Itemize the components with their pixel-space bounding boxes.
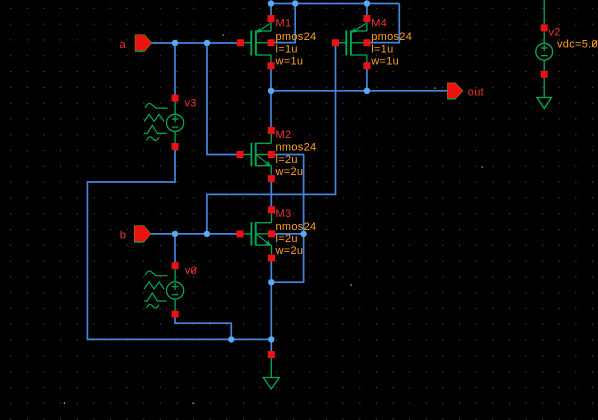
svg-text:M4: M4 — [371, 18, 387, 30]
ground symbol under V2 — [537, 78, 552, 109]
V3 minus terminal pin — [172, 143, 179, 150]
transistor M1 pmos24 — [241, 22, 272, 63]
junction bulk net / M3 bulk — [300, 231, 306, 237]
svg-text:nmos24: nmos24 — [276, 142, 317, 154]
junction net a / M2 gate branch — [204, 40, 210, 46]
junction net b / V0 — [172, 231, 178, 237]
svg-text:v3: v3 — [185, 98, 197, 110]
voltage source V2 vdc — [536, 0, 553, 71]
junction vdd rail / M1 drain — [268, 0, 274, 6]
wire M1 drain to vdd rail — [270, 4, 272, 19]
V0 minus terminal pin — [172, 311, 179, 318]
V3 plus terminal pin — [172, 95, 179, 102]
svg-text:M2: M2 — [276, 129, 292, 141]
wire M1 bulk to vdd rail — [271, 4, 295, 43]
wire M2 bulk to bulk net — [271, 155, 303, 283]
wire vdd rail — [271, 3, 399, 5]
wire net b from pin b to M3 gate — [151, 233, 240, 235]
svg-text:v0: v0 — [185, 265, 197, 277]
wire V3 minus to gnd rail — [87, 147, 271, 340]
svg-text:out: out — [468, 86, 484, 98]
svg-text:w=1u: w=1u — [275, 56, 304, 68]
wire M4 bulk to vdd rail — [367, 4, 399, 43]
wire M3 bulk to bulk net — [272, 233, 304, 235]
M2 source pin (bottom) — [268, 175, 275, 182]
svg-text:v2: v2 — [549, 26, 561, 38]
M4 bulk pin — [363, 39, 370, 46]
junction bulk net joins ground column — [268, 279, 274, 285]
M2 drain pin (top) — [268, 127, 275, 134]
M1 gate pin — [237, 39, 244, 46]
V2 plus terminal pin — [541, 24, 548, 31]
svg-text:M1: M1 — [276, 18, 292, 30]
svg-text:b: b — [120, 230, 126, 242]
M2 gate pin — [237, 151, 244, 158]
svg-text:pmos24: pmos24 — [371, 31, 412, 43]
junction out net / M1-M2 column — [268, 88, 274, 94]
wire net a branch to M2 gate — [207, 43, 240, 155]
svg-text:w=2u: w=2u — [275, 166, 304, 178]
transistor M4 pmos24 — [336, 22, 367, 63]
M2 bulk pin — [268, 151, 275, 158]
voltage source V3 (vsource) — [144, 102, 184, 145]
svg-text:l=2u: l=2u — [276, 154, 298, 166]
svg-text:pmos24: pmos24 — [276, 31, 317, 43]
wire net a from pin a to M1 gate — [152, 42, 241, 44]
V0 plus terminal pin — [172, 262, 179, 269]
wire net b down to V0 plus — [174, 234, 176, 264]
M3 bulk pin — [268, 230, 275, 237]
svg-text:l=2u: l=2u — [276, 233, 298, 245]
svg-text:l=1u: l=1u — [276, 43, 298, 55]
M3 gate pin — [237, 230, 244, 237]
svg-text:l=1u: l=1u — [371, 43, 393, 55]
junction out net / M4 source — [364, 88, 370, 94]
transistor M3 nmos24 — [240, 213, 272, 254]
wire M4 source to out net — [366, 67, 368, 91]
M4 drain pin (bottom) — [363, 62, 370, 69]
M4 gate pin — [332, 39, 339, 46]
input pin b — [134, 226, 151, 242]
M3 source pin (bottom) — [268, 255, 275, 262]
junction vdd rail / M1 bulk — [292, 0, 298, 6]
ground pin square — [268, 351, 275, 358]
M3 drain pin (top) — [268, 206, 275, 213]
junction net b / M4 gate branch — [204, 231, 210, 237]
wire net b branch to M4 gate — [207, 46, 336, 234]
V2 minus terminal pin — [541, 71, 548, 78]
svg-text:a: a — [120, 39, 127, 51]
M4 source pin (top) — [363, 15, 370, 22]
wire out net vertical M1 source to M2 drain — [270, 66, 272, 131]
junction net a / V3 — [172, 40, 178, 46]
ground symbol (gnd) — [263, 358, 279, 389]
M1 drain pin (bottom) — [268, 62, 275, 69]
svg-text:nmos24: nmos24 — [276, 221, 317, 233]
input pin a — [135, 35, 152, 51]
M1 bulk pin — [268, 39, 275, 46]
svg-text:w=2u: w=2u — [275, 245, 304, 257]
junction gnd rail / V0 — [228, 336, 234, 342]
M1 source pin (top) — [268, 15, 275, 22]
junction vdd rail / M4 drain — [364, 0, 370, 6]
svg-text:M3: M3 — [276, 208, 292, 220]
wire M3 source to ground — [270, 259, 272, 355]
output pin out — [447, 83, 463, 99]
transistor M2 nmos24 — [240, 134, 271, 175]
wire M2 source to M3 drain — [270, 179, 272, 210]
wire V0 minus to gnd rail — [175, 316, 231, 339]
voltage source V0 (vsource) — [144, 269, 184, 312]
svg-text:vdc=5.0: vdc=5.0 — [557, 39, 598, 51]
wire M4 drain to vdd rail — [366, 4, 368, 19]
wire out net horizontal to out pin — [271, 90, 447, 92]
junction gnd rail / ground column — [268, 336, 274, 342]
svg-text:w=1u: w=1u — [370, 56, 399, 68]
wire net a down to V3 plus — [174, 43, 176, 98]
